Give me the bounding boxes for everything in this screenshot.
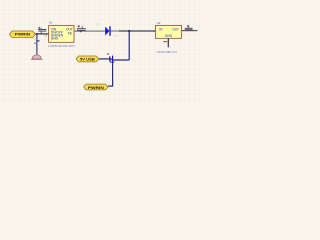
svg-text:5V USB: 5V USB <box>80 58 95 62</box>
capacitor C3 <box>77 25 86 30</box>
svg-text:U1: U1 <box>49 21 53 25</box>
wire U1 out to diode <box>74 30 105 32</box>
svg-text:FB: FB <box>68 31 72 35</box>
diode D1 <box>105 26 111 35</box>
sheet background <box>0 0 200 103</box>
port PWRIN (bottom) <box>84 84 109 90</box>
capacitor C2 (on ground wire) <box>34 41 39 43</box>
svg-text:GND: GND <box>165 34 173 38</box>
regulator U2 <box>154 21 185 54</box>
svg-text:OUT: OUT <box>172 27 179 31</box>
wire port1 to U1 <box>35 33 48 35</box>
wire port2 to cap <box>99 58 110 60</box>
wire rail to U2 <box>119 30 155 32</box>
svg-text:OUT: OUT <box>66 28 73 32</box>
wire to ground <box>36 34 38 55</box>
capacitor C4 (series, polarized) <box>107 53 114 62</box>
junction dot <box>128 30 130 32</box>
capacitor C1 <box>38 27 46 34</box>
capacitor C5 <box>185 25 193 30</box>
svg-text:U2: U2 <box>157 21 161 25</box>
pin number mark <box>45 35 47 37</box>
svg-text:D?: D? <box>96 23 100 27</box>
designator D? (faint) <box>96 23 118 38</box>
svg-text:GND: GND <box>51 37 59 41</box>
svg-text:PWRIN: PWRIN <box>15 33 31 37</box>
wire U2 out <box>185 30 198 32</box>
port PWRIN (top-left) <box>9 31 35 38</box>
junction dot <box>80 30 82 32</box>
svg-text:D?: D? <box>114 34 118 38</box>
wire down from junction <box>128 31 130 60</box>
junction dot <box>36 33 38 35</box>
wire diode to U2 <box>111 30 120 32</box>
wire down to port3 <box>108 62 112 86</box>
port 5V USB <box>76 56 99 62</box>
svg-text:PWRIN: PWRIN <box>88 86 104 90</box>
regulator U1 <box>48 21 77 48</box>
wire corner to cap <box>113 59 129 61</box>
ground <box>31 55 42 59</box>
